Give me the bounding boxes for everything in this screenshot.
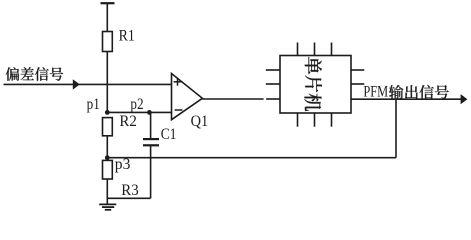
node p3 junction dot [105,155,110,160]
wire C1 down [150,145,152,198]
wire p1 to p2 [107,111,171,113]
capacitor C1 [143,139,159,145]
pin top 1 [297,43,299,56]
wire R3 to ground [106,179,108,204]
svg-text:R1: R1 [119,27,135,44]
wire op-amp output to pin [266,98,280,100]
pin top 2 [314,43,316,56]
node p2 junction dot [147,110,152,115]
op-amp Q1 [172,74,203,120]
svg-text:R2: R2 [119,113,136,130]
pin left 2 [266,83,280,85]
IC U1 box 单片机 [280,56,351,114]
ground [99,204,116,209]
arrow output [461,94,468,104]
arrow input [73,79,80,89]
svg-text:PFM: PFM [363,84,388,101]
wire C1 return to ground rail [107,197,150,199]
pin bottom 2 [314,113,316,127]
power rail terminal bar [101,2,115,4]
pin left 1 [266,69,280,71]
resistor R1 [103,32,113,52]
svg-text:C1: C1 [161,126,177,143]
svg-text:Q1: Q1 [191,113,209,130]
pin right 2 [351,83,364,85]
resistor R3 [103,160,113,179]
svg-text:p2: p2 [130,96,143,113]
pin right 1 [351,69,364,71]
pin top 3 [331,43,333,56]
op-amp plus input mark [174,78,182,86]
label 输出信号 [389,85,449,99]
wire p2 to C1 [150,112,152,138]
node p1 junction dot [105,110,110,115]
svg-text:R3: R3 [121,182,139,199]
pin bottom 3 [331,113,333,127]
wire R2 to p3 [106,136,108,158]
svg-text:p1: p1 [87,96,100,113]
label 偏差信号 (input signal) [6,67,63,81]
wire R1 to p1 [106,52,108,113]
wire op-amp output [202,98,263,100]
label 单片机 (rotated) [304,57,322,111]
wire rail vertical [106,3,108,31]
resistor R2 [103,118,113,136]
wire output [351,98,463,100]
pin bottom 1 [297,113,299,127]
wire input [4,83,172,85]
op-amp minus input mark [175,109,183,111]
wire feedback vertical [395,99,397,158]
wire feedback horizontal to p3 [107,157,396,159]
